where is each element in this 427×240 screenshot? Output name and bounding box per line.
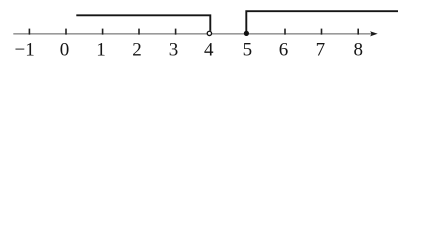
svg-text:3: 3 bbox=[169, 40, 179, 61]
svg-text:2: 2 bbox=[132, 40, 142, 61]
tick 6 bbox=[284, 29, 286, 35]
ray from 5 rightward with riser at 5 bbox=[246, 11, 398, 33]
tick 1 bbox=[102, 29, 104, 35]
tick 8 bbox=[357, 29, 359, 35]
tick 2 bbox=[138, 29, 140, 35]
svg-text:4: 4 bbox=[204, 40, 214, 61]
tick 7 bbox=[321, 29, 323, 35]
svg-text:5: 5 bbox=[243, 40, 253, 61]
svg-text:6: 6 bbox=[279, 40, 289, 61]
tick 3 bbox=[175, 29, 177, 35]
svg-text:8: 8 bbox=[353, 40, 363, 61]
tick -1 bbox=[28, 29, 30, 35]
filled circle at 5 bbox=[244, 31, 249, 36]
svg-text:−1: −1 bbox=[14, 40, 34, 61]
tick 0 bbox=[65, 29, 67, 35]
open circle at 4 bbox=[207, 31, 211, 35]
svg-text:1: 1 bbox=[96, 40, 106, 61]
svg-text:7: 7 bbox=[316, 40, 326, 61]
axis arrowhead bbox=[370, 31, 378, 36]
number line axis bbox=[13, 33, 371, 35]
svg-text:0: 0 bbox=[60, 40, 70, 61]
interval bar 0 to 4 with drop at 4 bbox=[76, 15, 210, 31]
